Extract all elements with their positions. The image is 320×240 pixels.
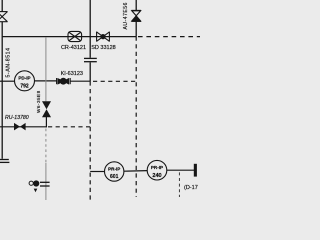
indicator (circle pair) xyxy=(29,181,33,185)
wire: bottom horizontal line segment 2 xyxy=(124,170,147,173)
wire: top horizontal line xyxy=(2,36,136,38)
svg-text:PR-IP: PR-IP xyxy=(108,166,120,171)
wire: dashed vertical (x=90) signal line xyxy=(89,81,91,200)
svg-text:792: 792 xyxy=(20,83,29,89)
wire: thin gray instrument line (x=46) xyxy=(45,37,47,101)
wire: dashed horizontal top right xyxy=(138,36,200,38)
instrument bubble PR-IP 601 xyxy=(105,162,124,181)
wire: short dashed vertical (x=179) xyxy=(178,172,180,197)
svg-text:KI-63123: KI-63123 xyxy=(61,71,83,77)
wire xyxy=(70,80,90,82)
wire: bottom horizontal line segment 1 xyxy=(90,171,104,173)
wire: gray dashed vertical (x=46) xyxy=(45,129,47,163)
wire: horizontal line y=127 xyxy=(0,126,46,128)
svg-text:PD-IP: PD-IP xyxy=(18,76,30,81)
wire: gray solid vertical (x=46) lower xyxy=(45,163,47,200)
wire: horizontal at y=81 left of instrument xyxy=(0,80,15,82)
arrow mark xyxy=(34,189,38,193)
wire: dashed horizontal y=127 from x=46 to x=90 xyxy=(48,126,90,128)
wire: left main vertical line xyxy=(1,0,3,12)
wire: dashed horizontal y=81 to x=136 xyxy=(93,80,136,82)
instrument bubble PR-IP 240 xyxy=(147,160,167,180)
svg-text:CR-43121: CR-43121 xyxy=(61,45,86,51)
valve SD-33128 (ball valve with end bars) xyxy=(97,32,110,42)
svg-text:W6-35E8: W6-35E8 xyxy=(36,90,41,113)
ground termination of left line xyxy=(0,159,9,161)
terminal bar xyxy=(194,164,197,177)
svg-text:5-AN-8514: 5-AN-8514 xyxy=(6,47,12,77)
wire xyxy=(89,62,91,81)
valve CR-43121 (rounded box with X) xyxy=(68,31,82,41)
capacitor on middle vertical line xyxy=(84,57,97,59)
svg-text:601: 601 xyxy=(110,174,119,180)
wire: dashed vertical (x=136) xyxy=(135,37,137,197)
check valve RU-13780 (filled bowtie) xyxy=(14,123,20,130)
wire: horizontal from instrument to valve KI xyxy=(35,80,57,82)
wire xyxy=(45,117,47,127)
svg-text:(D-17: (D-17 xyxy=(184,185,198,191)
wire: middle vertical line (x=90) xyxy=(89,0,91,58)
svg-text:240: 240 xyxy=(152,173,161,179)
instrument bubble PD-IP 792 xyxy=(15,71,35,91)
wire: bottom horizontal line segment 3 xyxy=(167,169,194,171)
svg-text:RU-13780: RU-13780 xyxy=(5,115,29,121)
svg-text:AU-47E56: AU-47E56 xyxy=(123,2,129,29)
valve KI-63123 (solenoid, filled) xyxy=(57,78,71,84)
svg-text:PR-IP: PR-IP xyxy=(151,165,163,170)
capacitor on gray line xyxy=(40,181,50,183)
valve V1 (vertical bowtie, clipped at left edge) xyxy=(0,12,8,22)
svg-text:SD 33128: SD 33128 xyxy=(91,45,115,51)
check valve (filled hourglass) on x=46 xyxy=(42,101,51,109)
valve AU-47E56 (check valve on x=136 line) xyxy=(135,0,137,10)
